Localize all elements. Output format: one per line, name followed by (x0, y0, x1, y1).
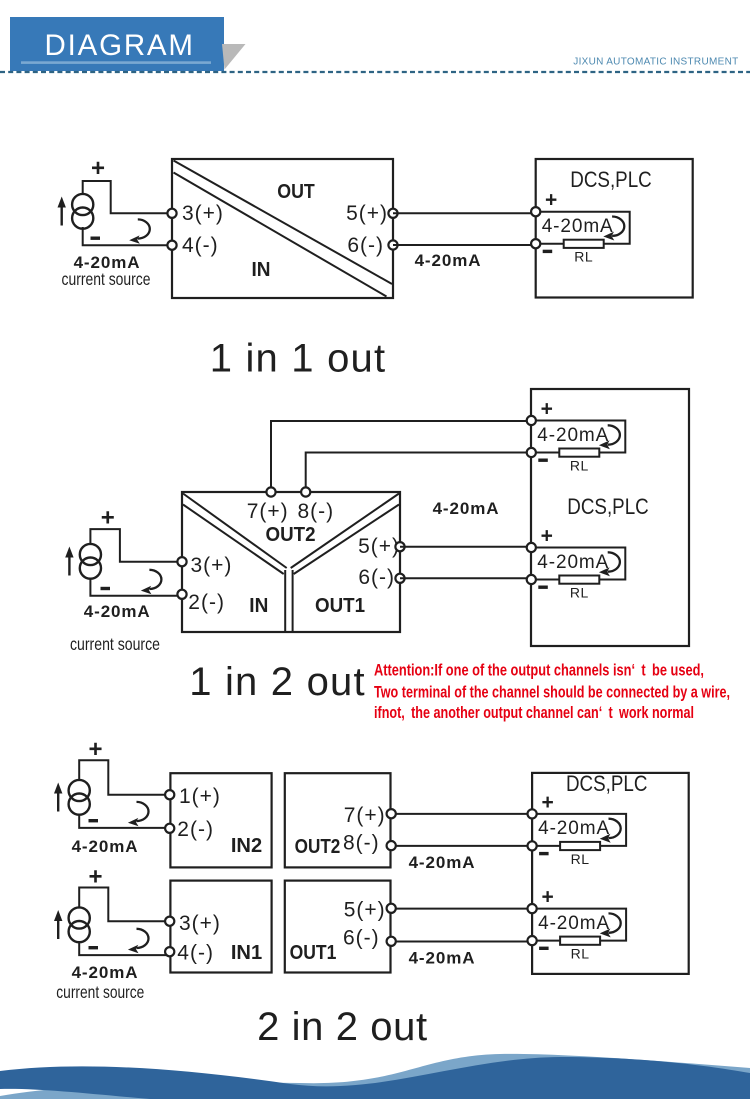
svg-text:7(+): 7(+) (344, 804, 386, 827)
svg-text:5(+): 5(+) (358, 535, 400, 558)
svg-text:OUT: OUT (277, 181, 315, 203)
svg-text:4-20mA: 4-20mA (433, 499, 500, 518)
svg-text:1(+): 1(+) (179, 785, 221, 808)
svg-text:OUT2: OUT2 (295, 836, 341, 858)
svg-text:ifnot, the another output chan: ifnot, the another output channel can‘ t… (374, 704, 694, 722)
svg-text:+: + (91, 155, 105, 182)
svg-text:4-20mA: 4-20mA (84, 602, 151, 621)
svg-text:3(+): 3(+) (182, 202, 224, 225)
svg-text:DCS,PLC: DCS,PLC (567, 494, 649, 519)
svg-text:DCS,PLC: DCS,PLC (566, 771, 648, 796)
svg-text:current source: current source (70, 634, 160, 654)
svg-text:Two terminal of the channel sh: Two terminal of the channel should be co… (374, 684, 730, 702)
svg-text:7(+): 7(+) (247, 500, 289, 523)
svg-text:2(-): 2(-) (177, 818, 214, 841)
svg-text:current source: current source (62, 269, 151, 289)
svg-text:8(-): 8(-) (298, 500, 335, 523)
svg-text:4-20mA: 4-20mA (72, 837, 139, 856)
svg-text:1 in 1 out: 1 in 1 out (210, 337, 387, 381)
svg-text:JIXUN AUTOMATIC INSTRUMENT: JIXUN AUTOMATIC INSTRUMENT (573, 57, 738, 68)
svg-text:DIAGRAM: DIAGRAM (45, 29, 195, 62)
svg-text:6(-): 6(-) (358, 566, 395, 589)
svg-text:+: + (101, 505, 115, 532)
svg-text:Attention:If one of the output: Attention:If one of the output channels … (374, 662, 704, 680)
svg-text:6(-): 6(-) (347, 234, 384, 257)
svg-text:4(-): 4(-) (177, 942, 214, 965)
svg-text:+: + (88, 736, 102, 763)
svg-text:current source: current source (56, 982, 144, 1002)
svg-text:4-20mA: 4-20mA (72, 963, 139, 982)
svg-text:5(+): 5(+) (346, 202, 388, 225)
svg-text:OUT1: OUT1 (290, 942, 337, 964)
svg-text:5(+): 5(+) (344, 899, 386, 922)
svg-text:IN: IN (252, 259, 271, 281)
svg-text:4-20mA: 4-20mA (409, 949, 476, 968)
svg-text:8(-): 8(-) (343, 832, 380, 855)
svg-text:4-20mA: 4-20mA (415, 251, 482, 270)
svg-text:3(+): 3(+) (179, 912, 221, 935)
svg-text:4-20mA: 4-20mA (409, 853, 476, 872)
svg-text:OUT1: OUT1 (315, 595, 365, 617)
svg-text:4(-): 4(-) (182, 234, 219, 257)
svg-text:3(+): 3(+) (191, 554, 233, 577)
svg-text:DCS,PLC: DCS,PLC (570, 167, 652, 192)
svg-text:2(-): 2(-) (188, 591, 225, 614)
svg-text:+: + (88, 864, 102, 891)
svg-text:IN2: IN2 (231, 835, 262, 857)
svg-text:6(-): 6(-) (343, 927, 380, 950)
svg-text:OUT2: OUT2 (266, 524, 316, 546)
svg-text:IN1: IN1 (231, 942, 262, 964)
svg-text:2 in 2 out: 2 in 2 out (257, 1005, 428, 1049)
svg-text:1 in 2 out: 1 in 2 out (189, 660, 366, 704)
svg-text:IN: IN (249, 595, 268, 617)
